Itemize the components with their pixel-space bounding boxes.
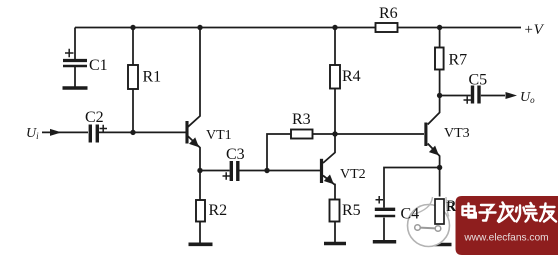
svg-text:R7: R7 [449, 52, 468, 69]
svg-text:VT2: VT2 [340, 167, 366, 182]
svg-text:R3: R3 [292, 111, 311, 128]
svg-text:C5: C5 [469, 72, 488, 89]
svg-text:VT1: VT1 [206, 128, 232, 143]
svg-text:R5: R5 [342, 202, 361, 219]
svg-text:R2: R2 [209, 202, 228, 219]
svg-text:R1: R1 [143, 69, 162, 86]
svg-text:www.elecfans.com: www.elecfans.com [463, 233, 548, 244]
svg-text:+V: +V [524, 22, 545, 38]
svg-text:R6: R6 [379, 5, 398, 22]
svg-text:R4: R4 [342, 68, 361, 85]
svg-text:C2: C2 [85, 109, 104, 126]
svg-text:C4: C4 [401, 206, 420, 223]
svg-text:C3: C3 [226, 146, 245, 163]
svg-text:C1: C1 [89, 57, 108, 74]
svg-text:VT3: VT3 [444, 126, 470, 141]
